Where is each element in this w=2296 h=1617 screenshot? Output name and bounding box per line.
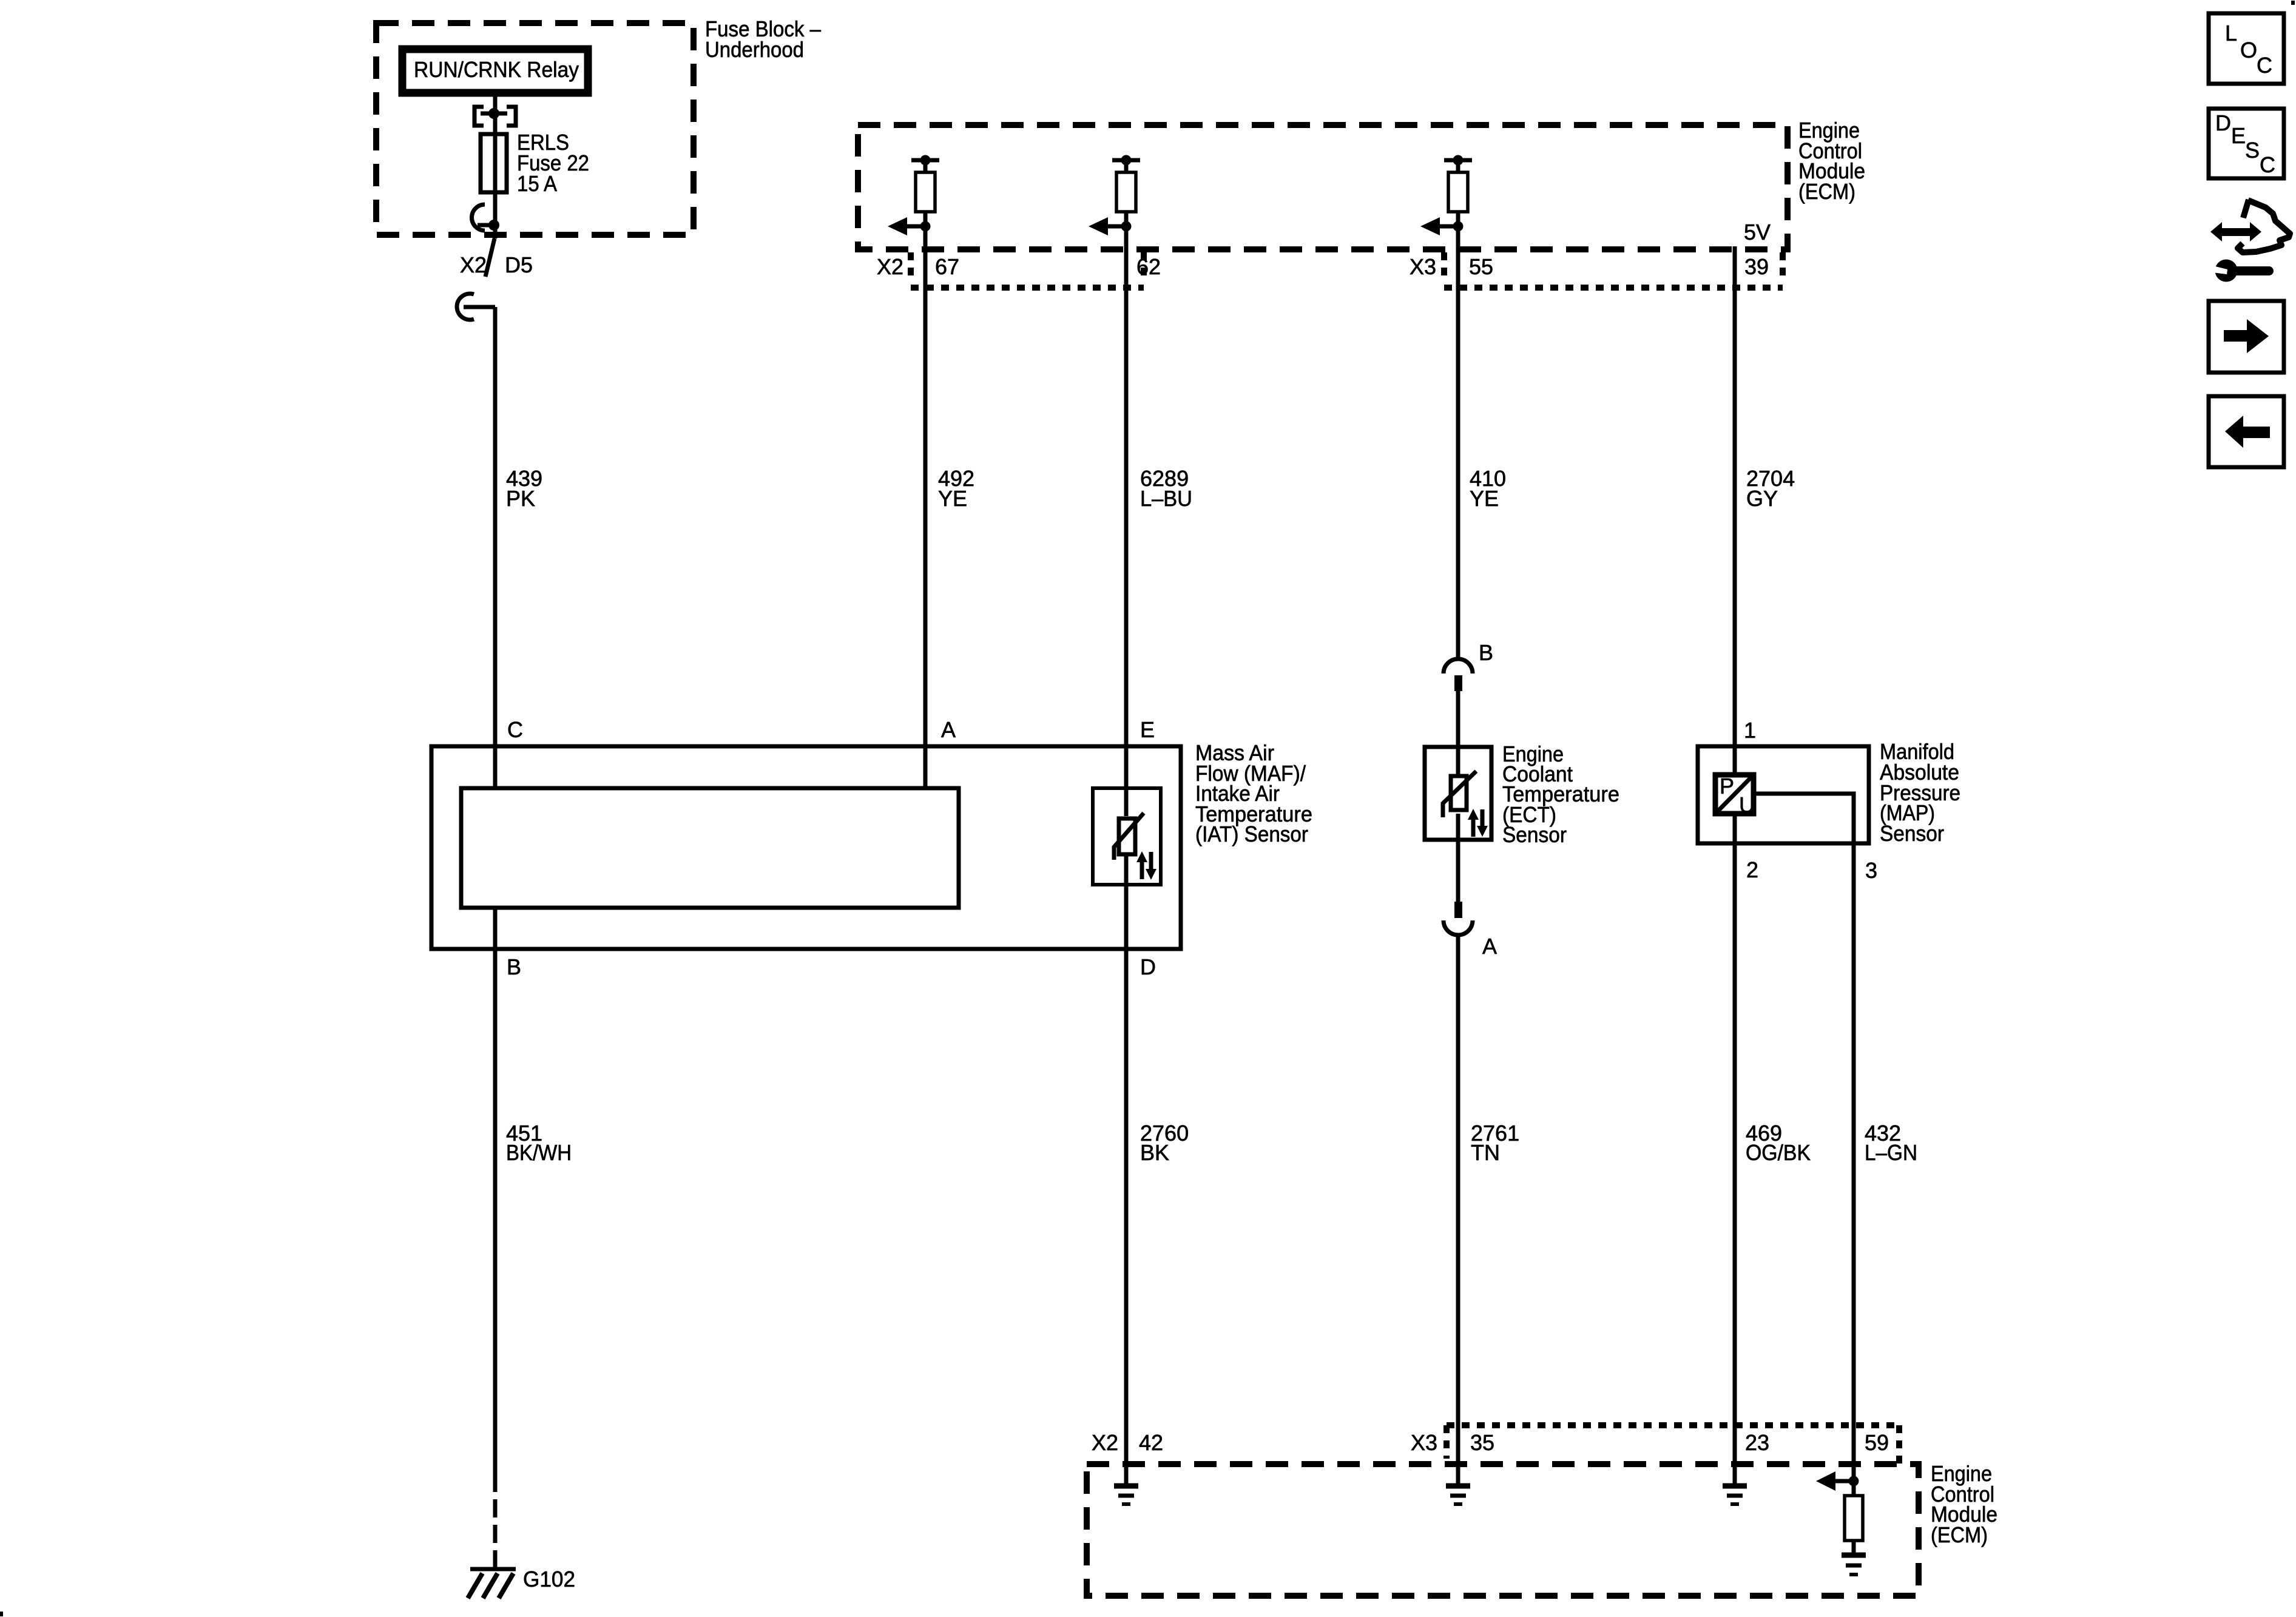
svg-text:P: P xyxy=(1720,774,1734,798)
svg-text:C: C xyxy=(2257,53,2272,78)
svg-text:GY: GY xyxy=(1746,486,1778,511)
svg-text:D: D xyxy=(1140,954,1156,979)
svg-text:OG/BK: OG/BK xyxy=(1746,1140,1811,1165)
svg-text:X3: X3 xyxy=(1410,254,1436,279)
svg-text:PK: PK xyxy=(506,486,535,511)
svg-text:YE: YE xyxy=(1470,486,1499,511)
svg-text:U: U xyxy=(1739,792,1755,817)
svg-text:(IAT) Sensor: (IAT) Sensor xyxy=(1195,822,1308,846)
svg-text:C: C xyxy=(507,717,523,742)
svg-text:D: D xyxy=(2215,110,2231,135)
svg-text:A: A xyxy=(941,717,956,742)
svg-text:23: 23 xyxy=(1745,1430,1769,1455)
svg-text:L–GN: L–GN xyxy=(1865,1140,1917,1165)
svg-text:B: B xyxy=(507,954,521,979)
svg-text:L–BU: L–BU xyxy=(1140,486,1192,511)
svg-text:42: 42 xyxy=(1139,1430,1163,1455)
svg-text:(ECM): (ECM) xyxy=(1798,179,1855,204)
svg-text:E: E xyxy=(2231,123,2246,148)
svg-text:BK: BK xyxy=(1140,1140,1169,1165)
svg-text:67: 67 xyxy=(935,254,959,279)
svg-text:62: 62 xyxy=(1136,254,1161,279)
svg-text:E: E xyxy=(1140,717,1155,742)
svg-text:X2: X2 xyxy=(1092,1430,1118,1455)
svg-text:1: 1 xyxy=(1744,718,1756,743)
svg-text:RUN/CRNK Relay: RUN/CRNK Relay xyxy=(414,57,579,82)
svg-text:59: 59 xyxy=(1865,1430,1889,1455)
svg-text:X3: X3 xyxy=(1411,1430,1437,1455)
svg-text:X2: X2 xyxy=(460,252,487,277)
svg-text:O: O xyxy=(2240,38,2257,62)
svg-text:Sensor: Sensor xyxy=(1880,821,1944,846)
svg-text:3: 3 xyxy=(1865,858,1877,883)
svg-text:2: 2 xyxy=(1746,857,1758,882)
svg-text:S: S xyxy=(2245,138,2260,163)
svg-text:15 A: 15 A xyxy=(517,171,557,196)
svg-text:C: C xyxy=(2260,152,2275,177)
svg-text:L: L xyxy=(2225,21,2237,46)
svg-text:TN: TN xyxy=(1471,1140,1500,1165)
svg-text:39: 39 xyxy=(1744,254,1769,279)
svg-text:YE: YE xyxy=(938,486,967,511)
svg-text:55: 55 xyxy=(1469,254,1493,279)
svg-text:5V: 5V xyxy=(1744,220,1771,245)
svg-text:A: A xyxy=(1482,934,1497,959)
svg-text:35: 35 xyxy=(1470,1430,1494,1455)
svg-text:D5: D5 xyxy=(505,252,533,277)
svg-text:X2: X2 xyxy=(877,254,903,279)
svg-text:(ECM): (ECM) xyxy=(1931,1522,1988,1547)
svg-text:BK/WH: BK/WH xyxy=(506,1140,572,1165)
svg-text:G102: G102 xyxy=(523,1567,575,1592)
svg-text:Underhood: Underhood xyxy=(705,37,804,62)
svg-text:Sensor: Sensor xyxy=(1502,822,1567,847)
svg-text:B: B xyxy=(1479,640,1493,665)
